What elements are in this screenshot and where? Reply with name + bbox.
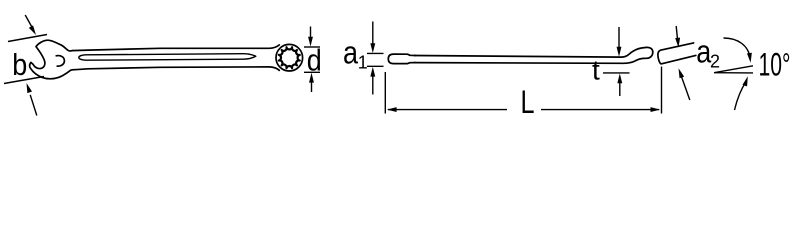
svg-text:2: 2	[710, 52, 720, 72]
svg-text:a: a	[343, 35, 358, 71]
svg-text:10°: 10°	[759, 46, 791, 82]
svg-text:d: d	[307, 42, 322, 77]
svg-text:b: b	[12, 47, 27, 82]
svg-text:1: 1	[358, 53, 368, 73]
svg-text:t: t	[592, 55, 600, 86]
svg-text:L: L	[521, 84, 535, 120]
